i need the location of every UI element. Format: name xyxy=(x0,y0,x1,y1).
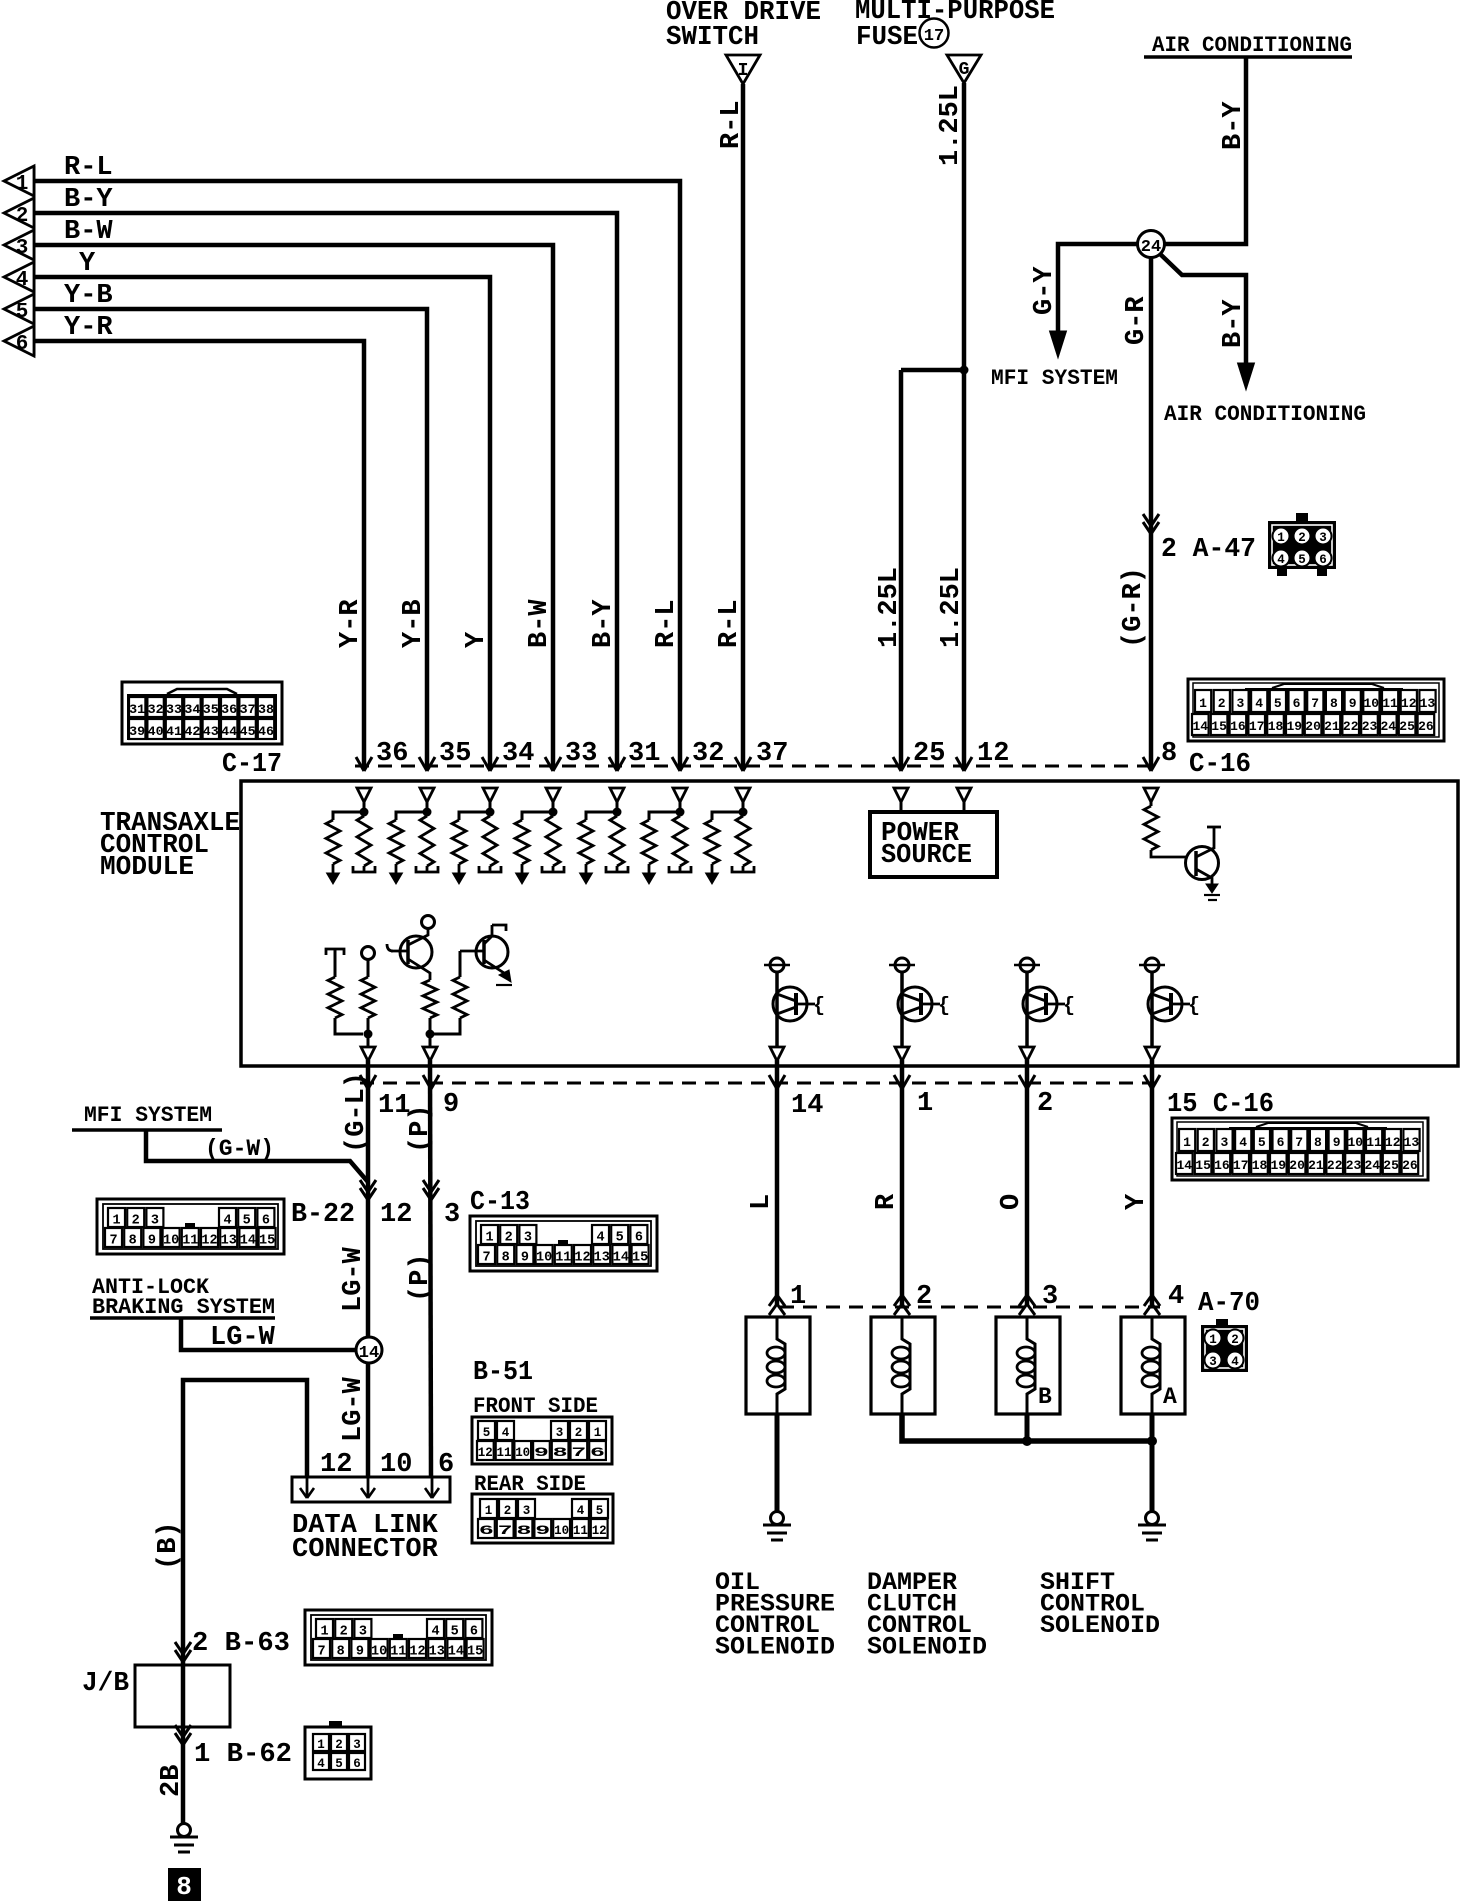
svg-text:LG-W: LG-W xyxy=(339,1246,369,1312)
svg-text:7: 7 xyxy=(109,1234,117,1249)
svg-text:8: 8 xyxy=(502,1251,510,1266)
svg-text:G-Y: G-Y xyxy=(1030,266,1060,315)
svg-text:AIR CONDITIONING: AIR CONDITIONING xyxy=(1152,33,1352,58)
svg-text:24: 24 xyxy=(1380,719,1396,734)
svg-text:SOLENOID: SOLENOID xyxy=(1040,1611,1160,1640)
svg-text:5: 5 xyxy=(1274,696,1282,711)
svg-text:3: 3 xyxy=(524,1231,532,1246)
svg-text:14: 14 xyxy=(448,1645,464,1660)
svg-text:15: 15 xyxy=(632,1251,648,1266)
svg-text:32: 32 xyxy=(692,739,724,769)
svg-text:7: 7 xyxy=(482,1251,490,1266)
svg-text:36: 36 xyxy=(376,739,408,769)
svg-text:{: { xyxy=(1188,995,1200,1018)
svg-text:10: 10 xyxy=(163,1234,179,1249)
svg-text:22: 22 xyxy=(1327,1158,1343,1173)
svg-text:12: 12 xyxy=(409,1645,425,1660)
svg-text:(G-W): (G-W) xyxy=(205,1136,274,1162)
svg-text:LG-W: LG-W xyxy=(339,1376,369,1442)
svg-text:24: 24 xyxy=(1141,238,1161,257)
svg-text:R-L: R-L xyxy=(652,599,682,648)
svg-text:2: 2 xyxy=(1202,1135,1210,1150)
svg-text:SWITCH: SWITCH xyxy=(666,23,759,53)
svg-text:2 A-47: 2 A-47 xyxy=(1161,535,1256,565)
svg-text:42: 42 xyxy=(184,725,200,739)
svg-text:(G-L): (G-L) xyxy=(342,1072,372,1153)
svg-text:9: 9 xyxy=(443,1090,459,1120)
svg-text:1.25L: 1.25L xyxy=(936,85,966,166)
svg-text:4: 4 xyxy=(1277,553,1285,567)
svg-text:1: 1 xyxy=(320,1625,328,1640)
svg-text:33: 33 xyxy=(166,703,182,717)
svg-text:18: 18 xyxy=(1268,719,1284,734)
svg-text:45: 45 xyxy=(240,725,256,739)
svg-text:3: 3 xyxy=(359,1625,367,1640)
svg-text:8: 8 xyxy=(1314,1135,1322,1150)
svg-text:R-L: R-L xyxy=(717,100,747,149)
svg-text:5: 5 xyxy=(1258,1135,1266,1150)
svg-text:SOLENOID: SOLENOID xyxy=(867,1633,987,1662)
svg-text:5: 5 xyxy=(1298,553,1306,567)
svg-text:12: 12 xyxy=(201,1234,217,1249)
svg-text:25: 25 xyxy=(913,739,945,769)
svg-text:Y-R: Y-R xyxy=(64,313,113,343)
svg-text:(B): (B) xyxy=(154,1521,184,1570)
svg-text:8: 8 xyxy=(517,1524,532,1538)
svg-text:B-W: B-W xyxy=(64,217,113,247)
svg-text:4: 4 xyxy=(1231,1355,1239,1369)
svg-text:B-Y: B-Y xyxy=(589,599,619,648)
svg-text:1: 1 xyxy=(917,1089,933,1119)
svg-text:4: 4 xyxy=(1168,1282,1184,1312)
svg-text:14: 14 xyxy=(791,1091,823,1121)
svg-text:17: 17 xyxy=(924,27,944,46)
svg-text:B-Y: B-Y xyxy=(64,185,113,215)
svg-text:10: 10 xyxy=(1363,696,1379,711)
svg-text:14: 14 xyxy=(613,1251,629,1266)
svg-text:40: 40 xyxy=(148,725,164,739)
svg-text:2: 2 xyxy=(340,1625,348,1640)
svg-text:6: 6 xyxy=(1277,1135,1285,1150)
svg-text:(G-R): (G-R) xyxy=(1119,567,1149,648)
svg-text:3: 3 xyxy=(523,1504,531,1518)
svg-text:4: 4 xyxy=(223,1214,231,1229)
svg-text:10: 10 xyxy=(554,1524,569,1538)
svg-text:9: 9 xyxy=(356,1645,364,1660)
svg-text:SOURCE: SOURCE xyxy=(881,841,972,871)
svg-text:44: 44 xyxy=(221,725,238,739)
svg-text:6: 6 xyxy=(438,1450,454,1480)
svg-text:Y-B: Y-B xyxy=(399,599,429,648)
svg-text:20: 20 xyxy=(1305,719,1321,734)
svg-text:J/B: J/B xyxy=(82,1669,129,1699)
svg-text:16: 16 xyxy=(1230,719,1246,734)
svg-text:A-70: A-70 xyxy=(1198,1289,1260,1319)
svg-text:AIR CONDITIONING: AIR CONDITIONING xyxy=(1164,402,1366,427)
svg-text:34: 34 xyxy=(502,739,534,769)
svg-text:10: 10 xyxy=(536,1251,552,1266)
svg-text:2: 2 xyxy=(1298,531,1306,545)
svg-text:31: 31 xyxy=(129,703,145,717)
svg-text:10: 10 xyxy=(380,1450,412,1480)
svg-text:11: 11 xyxy=(1366,1135,1382,1150)
svg-text:C-16: C-16 xyxy=(1189,750,1251,780)
svg-text:13: 13 xyxy=(1404,1135,1420,1150)
svg-text:19: 19 xyxy=(1270,1158,1286,1173)
svg-text:13: 13 xyxy=(1420,696,1436,711)
svg-text:2: 2 xyxy=(335,1738,343,1752)
svg-text:9: 9 xyxy=(1333,1135,1341,1150)
svg-text:1.25L: 1.25L xyxy=(875,567,905,648)
svg-text:4: 4 xyxy=(317,1757,325,1771)
svg-text:O: O xyxy=(997,1194,1027,1210)
svg-text:36: 36 xyxy=(221,703,237,717)
svg-text:39: 39 xyxy=(129,725,145,739)
svg-text:Y: Y xyxy=(79,249,96,279)
svg-text:17: 17 xyxy=(1249,719,1265,734)
svg-text:15: 15 xyxy=(1211,719,1227,734)
svg-text:8: 8 xyxy=(1161,739,1177,769)
svg-text:5: 5 xyxy=(596,1504,604,1518)
svg-text:6: 6 xyxy=(590,1446,605,1460)
svg-text:Y-B: Y-B xyxy=(64,281,113,311)
svg-text:2: 2 xyxy=(916,1282,932,1312)
svg-text:2B: 2B xyxy=(157,1765,187,1797)
svg-text:8: 8 xyxy=(553,1446,568,1460)
svg-text:11: 11 xyxy=(182,1234,198,1249)
svg-text:3: 3 xyxy=(1319,531,1327,545)
svg-text:8: 8 xyxy=(1330,696,1338,711)
svg-text:B: B xyxy=(1038,1384,1052,1410)
svg-text:9: 9 xyxy=(1349,696,1357,711)
svg-text:46: 46 xyxy=(258,725,274,739)
svg-text:12: 12 xyxy=(574,1251,590,1266)
svg-text:23: 23 xyxy=(1346,1158,1362,1173)
svg-text:3: 3 xyxy=(1042,1282,1058,1312)
svg-text:5: 5 xyxy=(335,1757,343,1771)
svg-text:11: 11 xyxy=(573,1524,588,1538)
svg-text:14: 14 xyxy=(1176,1158,1192,1173)
svg-text:4: 4 xyxy=(596,1231,604,1246)
svg-text:3: 3 xyxy=(151,1214,159,1229)
svg-text:9: 9 xyxy=(148,1234,156,1249)
svg-text:21: 21 xyxy=(1308,1158,1324,1173)
svg-text:R-L: R-L xyxy=(715,599,745,648)
svg-text:14: 14 xyxy=(359,1344,379,1363)
svg-text:25: 25 xyxy=(1383,1158,1399,1173)
svg-text:12: 12 xyxy=(1385,1135,1401,1150)
svg-text:8: 8 xyxy=(129,1234,137,1249)
svg-text:10: 10 xyxy=(515,1446,530,1460)
svg-text:13: 13 xyxy=(594,1251,610,1266)
svg-text:LG-W: LG-W xyxy=(210,1323,276,1353)
svg-text:L: L xyxy=(747,1194,777,1210)
svg-text:13: 13 xyxy=(429,1645,445,1660)
svg-text:MODULE: MODULE xyxy=(100,853,194,883)
svg-text:6: 6 xyxy=(1319,553,1327,567)
svg-text:7: 7 xyxy=(1295,1135,1303,1150)
svg-text:FRONT SIDE: FRONT SIDE xyxy=(473,1394,598,1419)
svg-text:38: 38 xyxy=(258,703,274,717)
svg-text:2: 2 xyxy=(1231,1333,1239,1347)
svg-text:SOLENOID: SOLENOID xyxy=(715,1633,835,1662)
svg-text:1: 1 xyxy=(1209,1333,1217,1347)
svg-text:G-R: G-R xyxy=(1122,296,1152,345)
svg-text:C-17: C-17 xyxy=(222,750,282,780)
svg-text:B-Y: B-Y xyxy=(1219,101,1249,150)
svg-text:13: 13 xyxy=(221,1234,237,1249)
svg-text:5: 5 xyxy=(16,301,29,324)
svg-text:12: 12 xyxy=(320,1450,352,1480)
svg-text:B-Y: B-Y xyxy=(1219,299,1249,348)
svg-text:11: 11 xyxy=(555,1251,571,1266)
svg-text:Y: Y xyxy=(1122,1193,1152,1210)
svg-text:C-13: C-13 xyxy=(470,1188,530,1218)
svg-text:14: 14 xyxy=(1192,719,1208,734)
svg-text:6: 6 xyxy=(353,1757,361,1771)
svg-text:2: 2 xyxy=(504,1504,512,1518)
svg-text:23: 23 xyxy=(1362,719,1378,734)
svg-text:8: 8 xyxy=(337,1645,345,1660)
svg-text:5: 5 xyxy=(483,1426,491,1440)
svg-text:2: 2 xyxy=(505,1231,513,1246)
svg-text:4: 4 xyxy=(577,1504,585,1518)
svg-text:(P): (P) xyxy=(406,1104,436,1153)
svg-text:1: 1 xyxy=(1183,1135,1191,1150)
svg-text:1: 1 xyxy=(790,1282,806,1312)
svg-text:2: 2 xyxy=(132,1214,140,1229)
svg-text:5: 5 xyxy=(243,1214,251,1229)
svg-text:CONNECTOR: CONNECTOR xyxy=(292,1535,439,1565)
svg-text:R-L: R-L xyxy=(64,153,113,183)
svg-text:A: A xyxy=(1163,1384,1177,1410)
svg-text:3: 3 xyxy=(444,1200,460,1230)
svg-text:12: 12 xyxy=(592,1524,607,1538)
svg-text:3: 3 xyxy=(353,1738,361,1752)
svg-text:22: 22 xyxy=(1343,719,1359,734)
svg-text:3: 3 xyxy=(16,237,29,260)
svg-text:32: 32 xyxy=(148,703,164,717)
svg-text:Y-R: Y-R xyxy=(336,599,366,648)
svg-text:15: 15 xyxy=(1195,1158,1211,1173)
svg-text:19: 19 xyxy=(1286,719,1302,734)
svg-text:9: 9 xyxy=(535,1524,550,1538)
svg-text:MFI SYSTEM: MFI SYSTEM xyxy=(84,1103,212,1128)
svg-text:{: { xyxy=(938,995,950,1018)
svg-text:3: 3 xyxy=(556,1426,564,1440)
svg-text:1.25L: 1.25L xyxy=(937,567,967,648)
svg-text:15 C-16: 15 C-16 xyxy=(1167,1090,1274,1120)
svg-text:4: 4 xyxy=(431,1625,439,1640)
svg-text:1: 1 xyxy=(485,1231,493,1246)
svg-text:2: 2 xyxy=(16,205,29,228)
svg-text:11: 11 xyxy=(497,1446,512,1460)
svg-text:12: 12 xyxy=(977,739,1009,769)
svg-text:{: { xyxy=(1063,995,1075,1018)
svg-text:6: 6 xyxy=(262,1214,270,1229)
svg-text:R: R xyxy=(872,1193,902,1210)
svg-text:18: 18 xyxy=(1252,1158,1268,1173)
svg-text:37: 37 xyxy=(756,739,788,769)
svg-text:10: 10 xyxy=(1347,1135,1363,1150)
svg-text:B-51: B-51 xyxy=(473,1358,533,1388)
svg-text:Y: Y xyxy=(462,631,492,648)
svg-text:7: 7 xyxy=(498,1524,513,1538)
svg-text:7: 7 xyxy=(571,1446,586,1460)
svg-text:4: 4 xyxy=(502,1426,510,1440)
svg-text:I: I xyxy=(738,61,749,81)
svg-text:7: 7 xyxy=(317,1645,325,1660)
svg-text:11: 11 xyxy=(1382,696,1398,711)
svg-text:14: 14 xyxy=(240,1234,256,1249)
svg-text:4: 4 xyxy=(1255,696,1263,711)
svg-text:15: 15 xyxy=(467,1645,483,1660)
svg-text:G: G xyxy=(959,60,970,80)
svg-text:35: 35 xyxy=(203,703,219,717)
svg-text:10: 10 xyxy=(371,1645,387,1660)
svg-text:7: 7 xyxy=(1311,696,1319,711)
svg-text:6: 6 xyxy=(16,333,29,356)
svg-text:41: 41 xyxy=(166,725,182,739)
svg-text:6: 6 xyxy=(635,1231,643,1246)
svg-text:2 B-63: 2 B-63 xyxy=(192,1629,290,1659)
svg-text:FUSE: FUSE xyxy=(856,23,918,53)
svg-text:1: 1 xyxy=(317,1738,325,1752)
svg-text:3: 3 xyxy=(1220,1135,1228,1150)
svg-text:6: 6 xyxy=(1293,696,1301,711)
svg-text:25: 25 xyxy=(1399,719,1415,734)
svg-text:20: 20 xyxy=(1289,1158,1305,1173)
svg-text:31: 31 xyxy=(628,739,660,769)
svg-text:12: 12 xyxy=(1401,696,1417,711)
svg-text:43: 43 xyxy=(203,725,219,739)
svg-text:26: 26 xyxy=(1418,719,1434,734)
svg-text:1: 1 xyxy=(112,1214,120,1229)
svg-text:5: 5 xyxy=(451,1625,459,1640)
svg-text:1: 1 xyxy=(594,1426,602,1440)
svg-text:8: 8 xyxy=(176,1872,192,1902)
svg-text:4: 4 xyxy=(16,269,29,292)
svg-text:9: 9 xyxy=(534,1446,549,1460)
svg-text:B-W: B-W xyxy=(525,599,555,648)
svg-text:1: 1 xyxy=(16,173,29,196)
svg-text:12: 12 xyxy=(380,1200,412,1230)
svg-text:3: 3 xyxy=(1209,1355,1217,1369)
svg-text:6: 6 xyxy=(470,1625,478,1640)
svg-text:1: 1 xyxy=(1199,696,1207,711)
svg-text:(P): (P) xyxy=(406,1253,436,1302)
svg-text:B-22: B-22 xyxy=(291,1200,355,1230)
svg-text:37: 37 xyxy=(240,703,256,717)
svg-text:34: 34 xyxy=(184,703,201,717)
svg-text:17: 17 xyxy=(1233,1158,1249,1173)
svg-text:26: 26 xyxy=(1402,1158,1418,1173)
svg-text:{: { xyxy=(813,995,825,1018)
svg-text:2: 2 xyxy=(1218,696,1226,711)
svg-text:4: 4 xyxy=(1239,1135,1247,1150)
svg-text:35: 35 xyxy=(439,739,471,769)
svg-text:5: 5 xyxy=(616,1231,624,1246)
svg-text:11: 11 xyxy=(390,1645,406,1660)
svg-text:1: 1 xyxy=(485,1504,493,1518)
svg-text:MFI SYSTEM: MFI SYSTEM xyxy=(991,366,1118,391)
svg-text:24: 24 xyxy=(1364,1158,1380,1173)
svg-text:2: 2 xyxy=(1037,1089,1053,1119)
svg-text:1 B-62: 1 B-62 xyxy=(194,1740,292,1770)
svg-text:3: 3 xyxy=(1236,696,1244,711)
svg-text:15: 15 xyxy=(259,1234,275,1249)
svg-text:9: 9 xyxy=(521,1251,529,1266)
svg-text:16: 16 xyxy=(1214,1158,1230,1173)
svg-text:33: 33 xyxy=(565,739,597,769)
svg-text:2: 2 xyxy=(575,1426,583,1440)
svg-text:21: 21 xyxy=(1324,719,1340,734)
svg-text:6: 6 xyxy=(479,1524,494,1538)
svg-text:1: 1 xyxy=(1277,531,1285,545)
svg-text:12: 12 xyxy=(478,1446,493,1460)
